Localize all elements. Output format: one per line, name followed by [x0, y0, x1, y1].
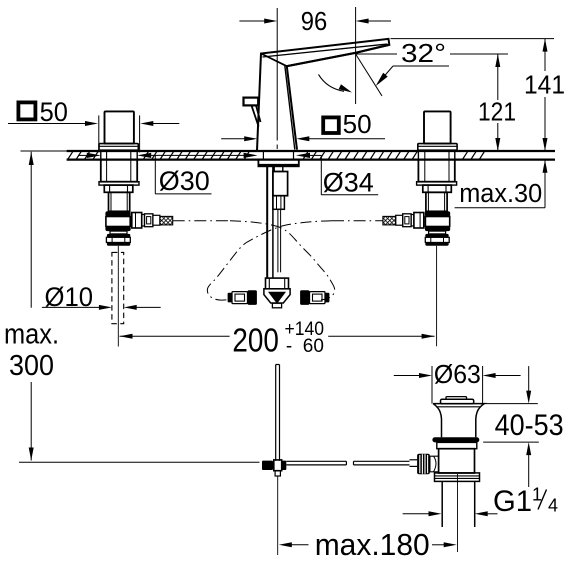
svg-text:50: 50 — [40, 97, 68, 127]
pop-up horizontal rod segment 1 — [286, 460, 346, 462]
dim square50 left dimension line — [8, 123, 86, 125]
dim 4053 upper extension line — [484, 403, 538, 405]
dim max300 bottom extension line — [19, 461, 260, 463]
right valve centerline — [436, 246, 438, 346]
label square50 center: square symbol — [323, 117, 339, 133]
pop-up rod junction lower tube — [275, 471, 280, 476]
right handle body — [424, 111, 451, 143]
svg-text:200: 200 — [232, 322, 279, 359]
dim 32 horizontal reference line — [356, 53, 397, 55]
left valve outlet pipe dia10 (hidden/dashed) — [112, 252, 124, 323]
svg-text:Ø63: Ø63 — [434, 359, 481, 389]
tee bottom stub — [272, 303, 281, 308]
spout lever knob — [244, 98, 259, 106]
svg-text:max.: max. — [4, 318, 59, 350]
hose curve from right valve to tee left port — [207, 221, 332, 300]
tee right port end cap — [325, 293, 329, 303]
left valve side port ring — [142, 215, 145, 227]
countertop top edge — [67, 150, 555, 152]
dim square50 center dimension line right — [309, 138, 386, 140]
svg-text:141: 141 — [524, 70, 565, 100]
svg-text:40-53: 40-53 — [495, 409, 564, 442]
dim 96 dimension line left tail + arrow — [239, 20, 266, 22]
svg-text:32°: 32° — [401, 38, 446, 68]
hose curve from left valve to tee right port — [230, 221, 335, 300]
right valve hose centerline — [332, 220, 383, 222]
dim dia34 right arrow + tail — [296, 153, 310, 158]
spout mounting flange nut — [258, 160, 298, 167]
dim max180 dimension line left — [291, 544, 309, 546]
dim max300 dimension line top — [30, 152, 32, 308]
drain center extension line — [457, 474, 459, 552]
drain rubber seal — [432, 437, 479, 442]
right valve assembly (mirrored) — [383, 151, 457, 246]
svg-text:- 60: - 60 — [286, 336, 324, 357]
left valve block body — [106, 217, 130, 227]
tee black cone — [268, 292, 286, 304]
pop-up horizontal rod segment 2 — [354, 460, 410, 462]
dim 96 right extension line — [355, 7, 357, 104]
tee nut — [266, 278, 289, 289]
spout shank through counter — [262, 151, 264, 160]
left valve neck — [109, 192, 130, 211]
tee body — [264, 289, 290, 303]
label dia34 leader — [320, 155, 322, 194]
drain tailpiece nut — [435, 473, 480, 482]
svg-text:G1: G1 — [493, 485, 532, 518]
label square50 left: square symbol — [18, 102, 35, 119]
left valve collar — [99, 182, 139, 185]
dim 141 top extension line — [391, 38, 555, 40]
left valve shank body — [101, 160, 137, 182]
left valve block bottom seal — [105, 227, 130, 232]
left handle body — [105, 111, 134, 143]
tee right port connector — [300, 290, 309, 305]
drain flange inner line — [436, 406, 481, 408]
drain body lip — [437, 442, 477, 448]
drain flange bell — [433, 404, 484, 438]
svg-text:1: 1 — [532, 485, 542, 505]
spout supply stub — [274, 166, 283, 171]
countertop extension line left — [21, 150, 67, 152]
pop-up rod junction left block — [262, 461, 273, 470]
dim 4053 dimension line lower — [528, 454, 530, 487]
left valve bottom nut body — [106, 237, 130, 242]
left valve block top seal — [105, 211, 130, 216]
left valve hose centerline — [173, 220, 230, 222]
dim 200 dimension line left — [120, 335, 230, 337]
right handle base plate — [418, 144, 457, 151]
dim 4053 dimension line upper — [528, 366, 530, 391]
svg-text:300: 300 — [9, 350, 54, 382]
dim G114 dimension line left — [403, 513, 430, 515]
countertop hatching — [68, 152, 484, 159]
dim square50 left extension lines — [98, 115, 100, 152]
svg-text:max.180: max.180 — [315, 527, 430, 562]
spout outline — [257, 39, 389, 151]
svg-text:96: 96 — [301, 6, 328, 36]
left valve hex nut — [104, 185, 133, 192]
left handle base plate — [99, 144, 138, 151]
spout top inner edge — [263, 44, 388, 57]
spout underside bold edge — [287, 45, 390, 66]
dim dia63 extension lines — [431, 366, 433, 404]
tee left port connector — [248, 290, 257, 305]
drain plug cap — [446, 397, 467, 400]
spout front crease — [261, 54, 287, 67]
dim max30 dimension line — [544, 160, 546, 208]
drain tailpipe — [441, 481, 443, 527]
spout supply left line — [272, 167, 274, 278]
dim G114 dimension line right — [487, 513, 498, 515]
left handle base bevel line — [100, 145, 139, 147]
svg-text:4: 4 — [548, 496, 558, 516]
right handle base bevel line — [418, 145, 457, 147]
drain body — [439, 449, 475, 473]
left valve centerline — [117, 246, 119, 347]
drain knurled knob — [417, 454, 430, 474]
dim max30 underline — [455, 207, 545, 209]
left valve side port tube — [145, 214, 153, 227]
dim max300 dimension line bottom — [30, 382, 32, 461]
pop-up rod junction center — [274, 460, 282, 471]
tee right port union — [310, 292, 326, 304]
left valve braided hose — [160, 216, 173, 225]
tee left port end cap — [228, 293, 232, 303]
left valve bottom nut bottom seal — [107, 243, 130, 246]
left valve lower neck — [110, 231, 127, 234]
left valve side port coupler — [153, 215, 160, 225]
dim dia30 left tail + arrow — [78, 154, 89, 156]
left valve bottom nut top seal — [107, 234, 130, 237]
dim 141 dimension line — [544, 39, 546, 71]
spout supply body — [273, 172, 288, 196]
dim 32 leader with arrow — [393, 65, 449, 67]
svg-text:Ø34: Ø34 — [323, 168, 374, 198]
dim 121 dimension line — [497, 54, 499, 100]
dim square50 center dimension line left — [221, 138, 244, 140]
spout lever stem — [251, 105, 258, 127]
pop-up rod lower extension line — [277, 476, 279, 555]
spout column inner edge — [285, 66, 295, 150]
dim 200 dimension line right — [328, 335, 434, 337]
label dia30 leader — [154, 155, 156, 194]
tee left port union — [232, 292, 248, 304]
left valve side port hex — [132, 213, 142, 229]
dim 96 dimension line right tail + arrow — [366, 20, 391, 22]
drain knob stem + rod end — [410, 459, 418, 461]
spout pull rod channel line — [266, 166, 268, 278]
left valve shank through counter — [100, 151, 102, 160]
dim max180 dimension line right — [432, 544, 445, 546]
dim 96 left extension/centerline — [276, 8, 278, 141]
svg-text:Ø30: Ø30 — [159, 166, 210, 196]
svg-text:121: 121 — [478, 97, 516, 127]
dim 32 angled line — [356, 54, 382, 96]
pop-up rod junction right block — [282, 461, 286, 470]
spout supply inner tube lines — [277, 209, 279, 272]
svg-text:max.30: max.30 — [459, 180, 542, 208]
svg-text:Ø10: Ø10 — [45, 282, 94, 312]
dim square50 left right arrow — [152, 123, 179, 125]
spout supply nut — [273, 196, 285, 210]
svg-text:50: 50 — [343, 111, 372, 139]
drain knob connector — [430, 456, 439, 472]
countertop bottom edge — [67, 159, 555, 161]
dim dia63 dimension line — [394, 375, 420, 377]
pop-up rod vertical — [275, 365, 277, 461]
dim dia10 dimension line — [42, 306, 100, 308]
dim 32 arc arrow — [319, 75, 345, 92]
dim 4053 lower extension line — [483, 441, 539, 443]
dim dia30 right arrow / dia34 left tail — [137, 153, 151, 158]
